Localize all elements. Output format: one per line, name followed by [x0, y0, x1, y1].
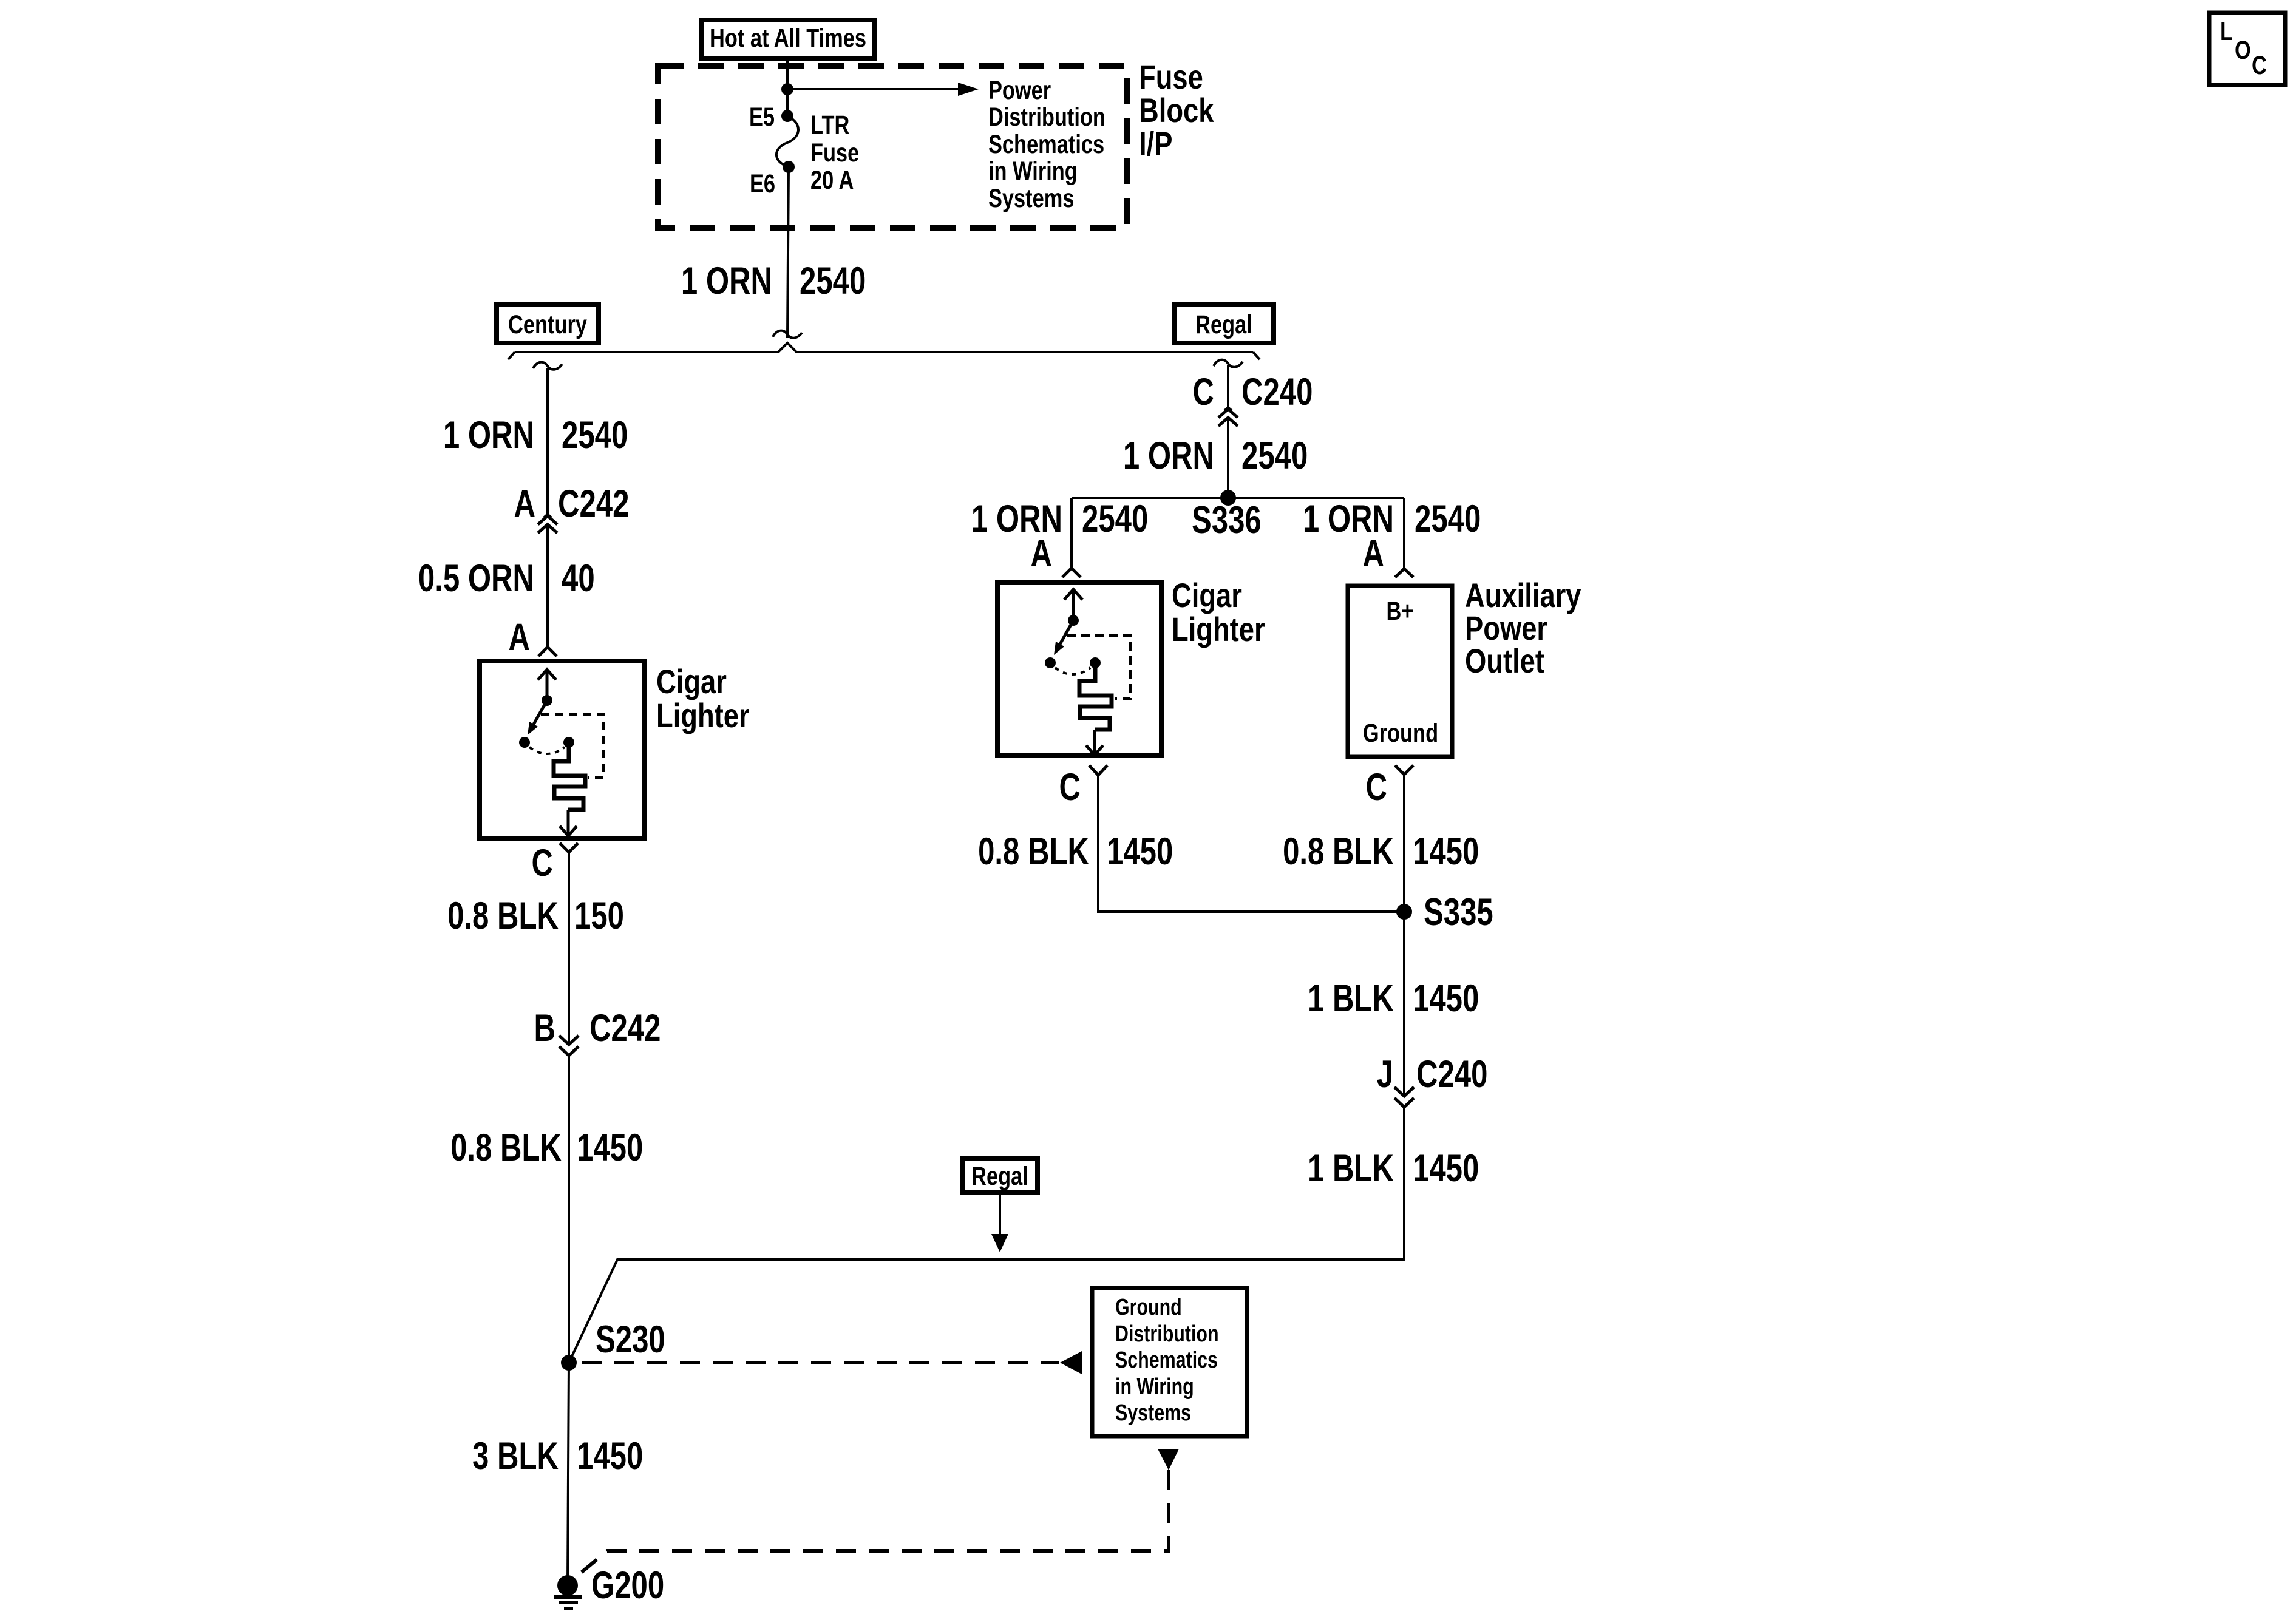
- wire label 1 ORN 2540 (top): [681, 259, 866, 302]
- wire: arrow to Power Distribution Schematics: [793, 88, 958, 90]
- label box: Regal: [1174, 304, 1274, 343]
- svg-text:1 ORN: 1 ORN: [443, 413, 534, 456]
- LOC badge box: [2209, 13, 2285, 85]
- svg-text:1 ORN: 1 ORN: [1123, 434, 1214, 476]
- wire label 0.8 BLK 1450 (Regal lighter): [978, 830, 1173, 872]
- svg-text:Regal: Regal: [1195, 310, 1252, 339]
- wire: Century branch down to connector C242: [546, 368, 549, 515]
- terminal A fork at Century cigar lighter: [538, 647, 557, 656]
- svg-text:Century: Century: [508, 310, 587, 339]
- wire: splice bar S336: [1072, 497, 1404, 499]
- svg-text:LTR: LTR: [810, 110, 849, 139]
- svg-text:Systems: Systems: [1115, 1400, 1191, 1426]
- svg-text:Systems: Systems: [988, 184, 1074, 212]
- svg-text:J: J: [1377, 1053, 1393, 1095]
- label box: Century: [497, 304, 599, 343]
- bus left end hook: [508, 352, 515, 359]
- wire: main feed from Hot at All Times to fuse: [786, 58, 789, 116]
- svg-text:3 BLK: 3 BLK: [472, 1434, 559, 1477]
- svg-text:S230: S230: [596, 1318, 665, 1360]
- wire label 1 ORN 2540 (Century branch): [443, 413, 628, 456]
- dashed linkage outline: [1067, 636, 1130, 699]
- label: Auxiliary Power Outlet: [1465, 576, 1581, 680]
- wire: right drop to Auxiliary Power Outlet: [1403, 498, 1405, 569]
- label: Power Distribution Schematics in Wiring Systems: [988, 76, 1106, 212]
- svg-text:1450: 1450: [1107, 830, 1173, 872]
- svg-text:0.5 ORN: 0.5 ORN: [418, 557, 534, 599]
- wire label 1 BLK 1450 (upper): [1308, 977, 1479, 1019]
- svg-text:0.8 BLK: 0.8 BLK: [978, 830, 1089, 872]
- svg-text:Schematics: Schematics: [988, 130, 1104, 158]
- switch contact dot left: [519, 737, 530, 748]
- wire: Regal lighter ground 0.8 BLK 1450: [1098, 775, 1404, 912]
- wire: option bus with center bump: [515, 343, 1253, 352]
- svg-text:Power: Power: [988, 76, 1051, 104]
- wire break tilde at feed end: [773, 331, 802, 338]
- fuse LTR Fuse 20 A element: [776, 116, 798, 167]
- wire break tilde at Century branch start: [533, 362, 562, 370]
- svg-text:0.8 BLK: 0.8 BLK: [1283, 830, 1394, 872]
- svg-text:C240: C240: [1241, 370, 1313, 413]
- svg-text:2540: 2540: [562, 413, 628, 456]
- svg-text:150: 150: [574, 894, 624, 937]
- wire: 1 BLK 1450 down and across to S230: [569, 1107, 1404, 1363]
- splice S230 dot: [561, 1355, 577, 1371]
- svg-text:1 ORN: 1 ORN: [681, 259, 772, 302]
- svg-text:B: B: [534, 1006, 555, 1049]
- wire: outlet ground 0.8 BLK 1450: [1403, 775, 1405, 912]
- reference arrowhead (left): [1060, 1351, 1082, 1374]
- svg-text:Outlet: Outlet: [1465, 642, 1544, 680]
- fuse terminal E6 dot: [783, 161, 795, 173]
- node: feed junction dot: [781, 83, 793, 95]
- svg-text:E6: E6: [750, 169, 775, 198]
- heater element zigzag: [554, 747, 585, 810]
- wire: fuse output down to bus: [787, 167, 789, 338]
- wire: 0.8 BLK 1450 down to S230: [568, 1056, 570, 1363]
- switch contact dot right: [563, 737, 574, 748]
- switch contact dot right: [1090, 657, 1101, 668]
- svg-text:Distribution: Distribution: [1115, 1321, 1219, 1347]
- svg-text:2540: 2540: [800, 259, 866, 302]
- svg-text:Cigar: Cigar: [1172, 576, 1242, 614]
- svg-text:Block: Block: [1139, 91, 1214, 129]
- label box: Regal (ground side): [962, 1159, 1038, 1193]
- svg-text:Distribution: Distribution: [988, 103, 1106, 131]
- svg-text:40: 40: [562, 557, 595, 599]
- wire label 0.8 BLK 150: [447, 894, 624, 937]
- svg-text:2540: 2540: [1415, 497, 1481, 540]
- svg-text:Lighter: Lighter: [656, 696, 750, 734]
- svg-text:G200: G200: [591, 1564, 664, 1606]
- svg-text:L: L: [2220, 17, 2233, 46]
- dotted travel arc: [1055, 668, 1090, 674]
- svg-text:Regal: Regal: [971, 1162, 1028, 1190]
- wire: left drop to Regal cigar lighter: [1070, 498, 1073, 568]
- svg-text:S336: S336: [1192, 498, 1262, 541]
- svg-text:1 BLK: 1 BLK: [1308, 977, 1394, 1019]
- switch arm up-arrow inside Regal lighter: [1064, 589, 1082, 618]
- svg-text:C242: C242: [558, 482, 629, 524]
- svg-text:20 A: 20 A: [810, 166, 854, 194]
- switch blade with arrowhead: [533, 700, 547, 725]
- wire label 1 ORN 2540 (left drop): [971, 497, 1148, 540]
- wire: 0.5 ORN 40 segment: [546, 526, 549, 647]
- svg-text:C240: C240: [1416, 1053, 1487, 1095]
- dashed reference line from S230: [582, 1361, 1059, 1364]
- wire label 1 ORN 2540 (right drop): [1303, 497, 1481, 540]
- terminal C fork below Regal lighter: [1089, 765, 1107, 775]
- Regal pointer arrow: [999, 1193, 1001, 1236]
- terminal A fork at Auxiliary Power Outlet: [1395, 569, 1413, 577]
- svg-text:Ground: Ground: [1363, 719, 1438, 747]
- svg-text:A: A: [514, 482, 535, 524]
- terminal A fork at Regal cigar lighter: [1062, 568, 1081, 577]
- terminal C fork below Century lighter: [560, 843, 578, 852]
- splice S335 dot: [1396, 904, 1412, 920]
- label: Fuse Block I/P: [1139, 58, 1214, 163]
- svg-text:A: A: [509, 615, 530, 658]
- connector C240 pin J (inline, down): [1394, 1087, 1414, 1107]
- label: Cigar Lighter (Century): [656, 662, 750, 734]
- ground G200 dot: [557, 1575, 578, 1596]
- wire label 1 ORN 2540 (Regal feed): [1123, 434, 1308, 476]
- svg-text:1450: 1450: [577, 1126, 643, 1168]
- svg-text:C: C: [1366, 765, 1387, 808]
- dashed reference path to G200: [577, 1470, 1169, 1576]
- svg-text:1450: 1450: [577, 1434, 643, 1477]
- label box: Hot at All Times: [701, 20, 875, 58]
- svg-text:2540: 2540: [1241, 434, 1308, 476]
- wire label 0.5 ORN 40: [418, 557, 595, 599]
- svg-text:Cigar: Cigar: [656, 662, 727, 700]
- fuse F LTR 20A terminal E5 dot: [781, 110, 793, 122]
- wire: 1 BLK 1450 to connector C240: [1403, 912, 1405, 1096]
- switch pivot dot: [1068, 615, 1079, 626]
- heater element zigzag: [1079, 667, 1112, 730]
- svg-text:in Wiring: in Wiring: [988, 157, 1078, 185]
- svg-text:1450: 1450: [1413, 977, 1479, 1019]
- splice S336 dot: [1220, 490, 1236, 506]
- switch blade with arrowhead: [1059, 620, 1073, 645]
- reference box: Ground Distribution Schematics in Wiring Systems: [1092, 1288, 1247, 1436]
- dotted travel arc: [529, 747, 565, 754]
- svg-text:Hot at All Times: Hot at All Times: [710, 24, 866, 52]
- svg-text:E5: E5: [749, 103, 775, 131]
- wire label 0.8 BLK 1450 (outlet): [1283, 830, 1479, 872]
- svg-text:C: C: [532, 841, 553, 884]
- connector C242 pin B (inline, down): [559, 1036, 579, 1056]
- svg-text:C: C: [1193, 370, 1214, 413]
- wire label 3 BLK 1450: [472, 1434, 643, 1477]
- reference triangle below box: [1158, 1449, 1179, 1470]
- wire: 3 BLK 1450 to G200: [568, 1363, 569, 1585]
- svg-text:1450: 1450: [1413, 1147, 1479, 1189]
- svg-text:B+: B+: [1387, 597, 1414, 625]
- svg-text:Fuse: Fuse: [810, 138, 859, 167]
- component box: Cigar Lighter (Regal): [997, 583, 1161, 756]
- fuse block dashed outline: [658, 66, 1127, 228]
- connector C242 pin A (inline, up): [538, 515, 557, 533]
- svg-text:Schematics: Schematics: [1115, 1347, 1218, 1373]
- svg-text:O: O: [2235, 36, 2251, 64]
- terminal C fork below Auxiliary Power Outlet: [1395, 765, 1413, 775]
- svg-text:A: A: [1031, 532, 1052, 574]
- svg-text:S335: S335: [1424, 890, 1493, 933]
- label: Cigar Lighter (Regal): [1172, 576, 1265, 648]
- wire: 1 ORN 2540 to splice S336: [1227, 419, 1229, 498]
- component box: Cigar Lighter (Century): [480, 661, 644, 838]
- svg-text:Ground: Ground: [1115, 1295, 1182, 1320]
- wire: 0.8 BLK 150 segment: [568, 852, 570, 1043]
- svg-text:I/P: I/P: [1139, 124, 1172, 163]
- component box: Auxiliary Power Outlet: [1348, 586, 1452, 757]
- label: LTR Fuse 20 A: [810, 110, 859, 194]
- svg-text:1450: 1450: [1413, 830, 1479, 872]
- svg-text:Lighter: Lighter: [1172, 610, 1265, 648]
- connector C240 pin C (inline, up): [1218, 408, 1238, 426]
- svg-text:0.8 BLK: 0.8 BLK: [447, 894, 559, 937]
- wire label 1 BLK 1450 (lower): [1308, 1147, 1479, 1189]
- svg-text:C: C: [1059, 765, 1081, 808]
- wire break tilde at Regal branch start: [1214, 360, 1243, 367]
- svg-text:in Wiring: in Wiring: [1115, 1374, 1194, 1400]
- svg-text:1 BLK: 1 BLK: [1308, 1147, 1394, 1189]
- svg-text:A: A: [1363, 532, 1384, 574]
- bus right end hook: [1253, 352, 1260, 359]
- dashed linkage outline: [541, 714, 603, 778]
- heater exit down-arrow: [560, 810, 577, 836]
- svg-text:C242: C242: [589, 1006, 661, 1049]
- ground symbol bars: [554, 1595, 582, 1610]
- switch pivot dot: [542, 695, 552, 706]
- switch arm up-arrow inside Century lighter: [538, 670, 556, 698]
- wire: Regal branch to connector C240: [1227, 365, 1229, 408]
- heater exit down-arrow: [1086, 730, 1103, 755]
- svg-text:2540: 2540: [1082, 497, 1148, 540]
- LOC badge letters: [2220, 17, 2267, 80]
- wire label 0.8 BLK 1450: [450, 1126, 643, 1168]
- svg-text:C: C: [2252, 51, 2267, 80]
- svg-text:Fuse: Fuse: [1139, 58, 1203, 96]
- svg-text:0.8 BLK: 0.8 BLK: [450, 1126, 562, 1168]
- switch contact dot left: [1045, 657, 1056, 668]
